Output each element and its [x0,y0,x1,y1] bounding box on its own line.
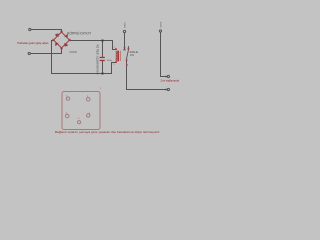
pad 4 [87,114,90,117]
terminal J4 output bottom [167,88,169,90]
pad labels [66,88,102,120]
relay core bar [117,51,119,62]
terminal J2 input bottom [28,52,30,54]
diode D3 bottom-left [55,43,59,46]
wire bridge left vertex down to bottom rail [52,41,54,74]
svg-text:CIKIS: CIKIS [124,22,126,28]
pad 1 [66,97,69,100]
contact tick NO [123,49,125,51]
wire bottom rail to coil bottom [52,63,117,74]
terminal J5 top right [159,30,161,32]
wire capacitor bottom lead [102,61,104,74]
svg-text:1000u: 1000u [107,60,113,62]
diode D4 bottom-right [64,43,67,47]
output arrow top [166,75,168,77]
diode D2 top-right [64,34,68,37]
output arrow bottom [166,88,168,90]
diode D1 top-left [55,34,68,47]
relay footprint box [62,92,100,130]
junction node at cap bottom [102,73,104,75]
terminal J3 top relay [123,30,125,32]
wire from top right terminal down to output terminal [161,32,167,77]
bridge rectifier BR1 [52,31,70,49]
terminal J1 input top [29,28,31,30]
wire input bottom from terminal to bridge bottom [31,48,62,53]
capacitor C1 1000u [100,57,112,62]
relay switch blade [127,50,129,59]
svg-text:2'ye bağlanacak: 2'ye bağlanacak [160,79,179,83]
relay core line [119,51,121,61]
wire bridge right vertex to coil top [70,41,117,50]
terminal J6 output top [167,75,169,77]
svg-text:KÖPRÜ DİYOT: KÖPRÜ DİYOT [67,31,92,36]
svg-text:KONDANSATÖR 1000u 25v: KONDANSATÖR 1000u 25v [97,43,100,74]
svg-text:CIKIS: CIKIS [161,21,163,27]
wire input top from terminal to bridge top [31,30,62,33]
svg-text:Bağlantı uçlarını şemaya göre: Bağlantı uçlarını şemaya göre yaparak rö… [55,130,160,134]
svg-text:Trafodan gelen giriş uçları: Trafodan gelen giriş uçları [17,41,49,45]
pad 2 [86,98,90,102]
junction node at cap top [102,40,104,42]
pad 5 [78,121,81,124]
wire capacitor top lead [102,41,104,57]
svg-text:12V: 12V [130,54,135,57]
wire relay NO contact up to terminal [124,33,126,50]
pad 3 [65,114,69,118]
svg-text:2W005: 2W005 [69,51,77,54]
contact stub NC [128,47,130,50]
relay RL1 coil [114,47,130,66]
coil pin dots [115,47,129,66]
wire relay common down and right to output terminal [127,60,167,90]
vertex pin crosses [52,31,70,49]
